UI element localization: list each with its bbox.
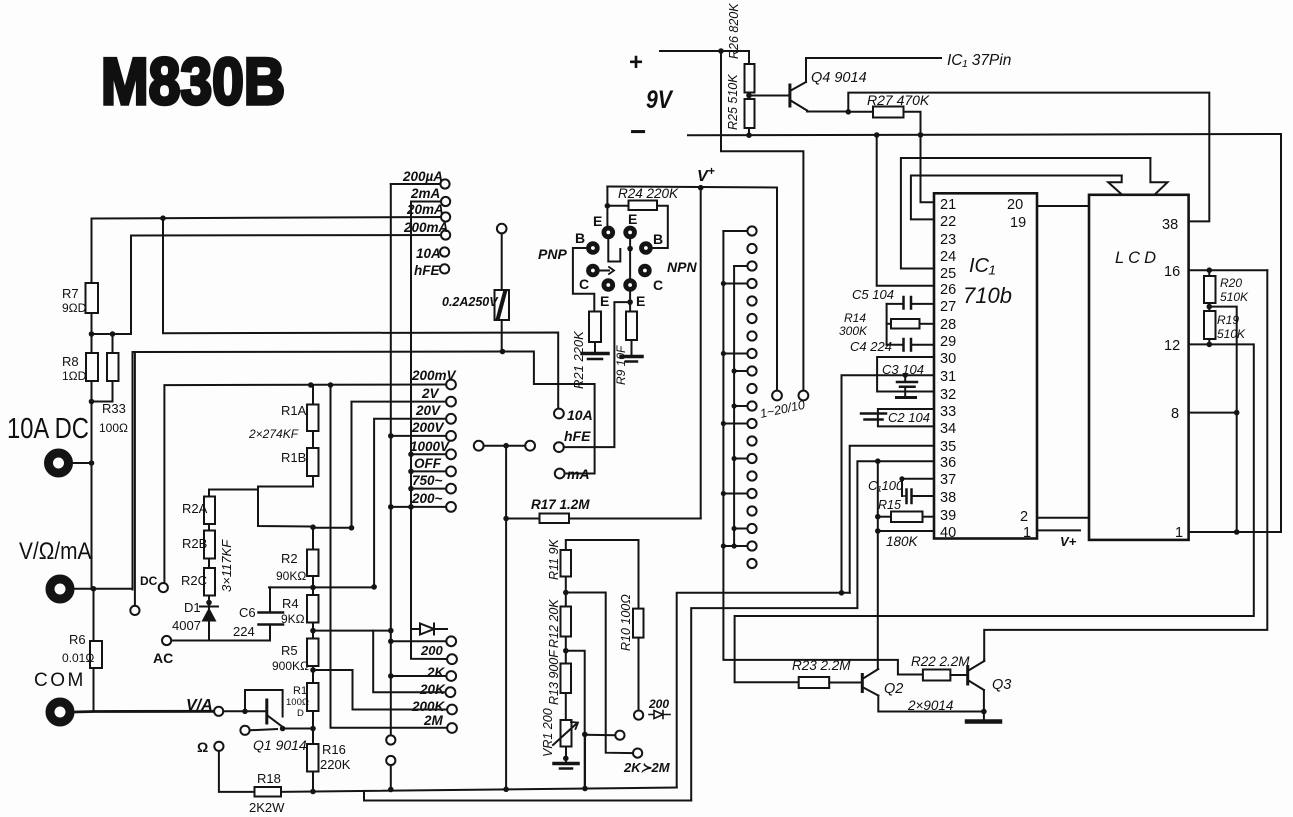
- svg-text:R1B: R1B: [281, 450, 306, 465]
- svg-text:V/Ω/mA: V/Ω/mA: [19, 538, 91, 565]
- wire pin20 to LCD: [1037, 205, 1089, 207]
- contact 1000V: [446, 449, 456, 459]
- svg-text:R6: R6: [69, 632, 86, 647]
- svg-text:10A: 10A: [416, 246, 441, 261]
- svg-text:R23 2.2M: R23 2.2M: [792, 658, 851, 673]
- strip lead r4: [723, 283, 747, 285]
- svg-text:R7: R7: [62, 286, 79, 301]
- IC1 box: [934, 193, 1037, 538]
- svg-text:180K: 180K: [886, 534, 919, 549]
- svg-text:224: 224: [233, 624, 255, 639]
- svg-text:200: 200: [648, 697, 669, 711]
- contact AC: [162, 636, 171, 645]
- resistor R21: [589, 312, 601, 343]
- resistor R13: [561, 664, 572, 694]
- svg-text:R2B: R2B: [182, 536, 207, 551]
- contact select2: [130, 606, 139, 615]
- svg-text:32: 32: [940, 387, 956, 403]
- wire rectifier net: [677, 593, 850, 788]
- svg-text:E: E: [593, 213, 602, 229]
- wire socket right column: [629, 239, 631, 279]
- resistor R8: [91, 334, 93, 353]
- svg-text:33: 33: [940, 404, 956, 420]
- transistor Q4: [788, 85, 791, 106]
- svg-text:PNP: PNP: [538, 246, 567, 262]
- svg-text:2K2W: 2K2W: [249, 800, 285, 815]
- wire R7 top lead: [91, 219, 93, 284]
- contact 20mA: [441, 212, 450, 221]
- svg-text:21: 21: [940, 197, 956, 213]
- wire to mid contact: [566, 651, 585, 789]
- wire 200V tap row: [313, 630, 391, 632]
- wire COM row: [93, 668, 95, 712]
- svg-text:100Ω: 100Ω: [99, 421, 128, 435]
- svg-text:36: 36: [940, 455, 956, 471]
- svg-text:200µA: 200µA: [402, 169, 443, 184]
- svg-text:OFF: OFF: [414, 456, 442, 471]
- svg-text:LCD: LCD: [1115, 249, 1160, 267]
- svg-text:90KΩ: 90KΩ: [276, 569, 306, 583]
- svg-text:hFE: hFE: [414, 263, 440, 278]
- capacitor C3: [877, 357, 933, 392]
- node Q1 emitter: [312, 711, 314, 744]
- svg-text:38: 38: [940, 490, 956, 506]
- svg-text:0.2A250V: 0.2A250V: [442, 295, 499, 309]
- svg-text:200V: 200V: [411, 420, 445, 435]
- svg-text:750~: 750~: [412, 473, 443, 488]
- svg-text:R24 220K: R24 220K: [618, 186, 679, 201]
- wire pin40: [878, 530, 933, 532]
- resistor R25: [748, 93, 750, 100]
- svg-text:4007: 4007: [172, 618, 201, 633]
- svg-text:2K: 2K: [426, 665, 446, 680]
- wire pin25 staircase: [901, 158, 1151, 269]
- svg-text:Q1 9014: Q1 9014: [253, 737, 307, 753]
- resistor R2C: [208, 559, 210, 569]
- resistor R1A: [307, 405, 319, 432]
- svg-text:510K: 510K: [1220, 290, 1249, 304]
- svg-text:1: 1: [1175, 525, 1183, 541]
- wire 200uA lead: [391, 183, 441, 185]
- svg-text:NPN: NPN: [667, 259, 697, 275]
- strip contact column: [747, 226, 756, 568]
- svg-text:C: C: [579, 276, 589, 292]
- svg-text:R2C: R2C: [181, 573, 207, 588]
- contact hFE jack: [554, 442, 564, 452]
- svg-text:D: D: [297, 708, 304, 719]
- svg-text:200: 200: [420, 643, 443, 658]
- svg-text:R17 1.2M: R17 1.2M: [531, 497, 590, 512]
- resistor R11: [561, 550, 572, 577]
- svg-text:C₁100: C₁100: [868, 478, 904, 493]
- contact 2M: [447, 723, 457, 733]
- wire to LCD38 top: [848, 93, 1209, 222]
- svg-text:1000V: 1000V: [410, 439, 450, 454]
- svg-text:R12 20K: R12 20K: [547, 599, 561, 648]
- svg-text:R21 220K: R21 220K: [571, 330, 586, 389]
- svg-text:30: 30: [940, 351, 956, 367]
- wiper contacts: [474, 441, 484, 451]
- wire R7 bottom node: [91, 313, 93, 334]
- svg-text:20: 20: [1007, 197, 1023, 213]
- wire R2A top: [209, 489, 258, 491]
- ground R21: [582, 352, 608, 356]
- wire Vminus rail lower: [877, 461, 879, 669]
- svg-text:C6: C6: [239, 605, 256, 620]
- svg-text:200~: 200~: [411, 491, 443, 506]
- node R12/R13: [565, 637, 567, 664]
- node divider top: [312, 385, 314, 405]
- wire R8/R33 bottom node: [92, 381, 113, 402]
- wire to mid contact riser: [584, 734, 586, 788]
- diode D1: [208, 596, 210, 609]
- svg-text:3×117KF: 3×117KF: [219, 539, 234, 592]
- wire wiper common: [505, 446, 507, 789]
- svg-text:9KΩ: 9KΩ: [281, 612, 305, 626]
- contact 750V~: [446, 484, 456, 494]
- contact V/A: [214, 707, 223, 716]
- socket pin E right bottom: [624, 279, 637, 292]
- svg-text:8: 8: [1171, 406, 1179, 422]
- svg-text:20V: 20V: [415, 403, 441, 418]
- wire Q4 collector to IC37: [806, 58, 941, 82]
- svg-text:100Ω: 100Ω: [286, 697, 309, 708]
- svg-text:22: 22: [940, 214, 956, 230]
- wire 2mA lead: [411, 201, 441, 203]
- resistor R4: [307, 595, 319, 623]
- contact 2K: [446, 671, 456, 681]
- svg-text:2mA: 2mA: [410, 186, 440, 201]
- ground R9: [621, 355, 642, 359]
- svg-text:M830B: M830B: [101, 45, 285, 119]
- wire socket inner jog: [608, 239, 620, 262]
- wire 2V tap row: [313, 527, 352, 529]
- svg-text:900KΩ: 900KΩ: [272, 659, 309, 673]
- contact mA jack: [555, 469, 565, 479]
- contact 10A: [440, 247, 449, 256]
- svg-text:R10 100Ω: R10 100Ω: [619, 594, 633, 651]
- wire battery minus: [688, 134, 1281, 135]
- bus X1: [390, 184, 392, 735]
- svg-text:37: 37: [940, 472, 956, 488]
- svg-text:200K: 200K: [411, 699, 446, 714]
- wire pin2 to LCD: [1037, 517, 1089, 519]
- contact Q1 base: [240, 726, 249, 735]
- svg-text:40: 40: [940, 525, 956, 541]
- contact pair R16: [386, 735, 395, 744]
- node R5/R1: [312, 666, 314, 683]
- contact diode-test: [446, 636, 456, 646]
- svg-text:10A: 10A: [567, 407, 593, 423]
- svg-text:R19: R19: [1217, 313, 1239, 327]
- strip lead r9: [734, 370, 747, 372]
- svg-text:B: B: [653, 231, 663, 247]
- contact OFF: [446, 467, 456, 477]
- strip bus B: [733, 266, 735, 546]
- svg-text:R8: R8: [62, 354, 79, 369]
- svg-text:25: 25: [940, 266, 956, 282]
- socket pin E left bottom: [602, 279, 615, 292]
- contact 200ohm: [447, 654, 457, 664]
- display arrow: [1108, 176, 1122, 195]
- svg-text:R5: R5: [281, 643, 298, 658]
- fuse F1: [497, 224, 507, 234]
- svg-text:R14: R14: [844, 311, 866, 325]
- svg-text:V/A: V/A: [186, 697, 213, 714]
- wire 20mA row: [92, 217, 446, 219]
- resistor R9: [626, 312, 637, 341]
- wire V/A to Q1: [223, 710, 266, 712]
- svg-text:D1: D1: [184, 600, 201, 615]
- diode symbol test: [411, 628, 447, 630]
- svg-text:R1: R1: [293, 685, 307, 697]
- contact 2V: [446, 397, 456, 407]
- svg-text:R2: R2: [281, 551, 298, 566]
- bus X2: [411, 202, 447, 660]
- ground Q3: [983, 712, 985, 721]
- svg-text:19: 19: [1010, 215, 1026, 231]
- contact DC: [159, 583, 168, 592]
- svg-text:E: E: [636, 293, 645, 309]
- node R2/R4: [312, 576, 314, 595]
- svg-text:C5 104: C5 104: [852, 287, 894, 302]
- wire 20V tap row: [269, 586, 374, 588]
- svg-text:1ΩD: 1ΩD: [62, 369, 87, 383]
- resistor R6: [90, 641, 102, 668]
- contact 2K2M: [633, 749, 642, 758]
- strip lead r12: [723, 423, 747, 425]
- potentiometer VR1: [561, 720, 572, 747]
- wire R25/R26 node to Q4: [749, 95, 790, 97]
- wire LCD pin16: [1189, 269, 1268, 271]
- svg-text:R1A: R1A: [281, 403, 307, 418]
- svg-text:DC: DC: [140, 574, 158, 588]
- svg-text:R22 2.2M: R22 2.2M: [911, 654, 970, 669]
- capacitor C2: [878, 409, 933, 426]
- resistor R1: [307, 683, 319, 711]
- wire socket B left: [573, 248, 594, 312]
- svg-text:R18: R18: [257, 771, 281, 786]
- resistor R16: [307, 744, 319, 772]
- wire Q4 emitter: [807, 111, 848, 112]
- wire V+ left drop: [700, 188, 702, 519]
- node R4/R5: [312, 623, 314, 639]
- socket pin E right top: [624, 226, 637, 239]
- svg-text:R15: R15: [878, 498, 901, 512]
- svg-text:29: 29: [940, 334, 956, 350]
- wire left rail down: [92, 463, 94, 642]
- wire R20/R19 mid rail: [1209, 307, 1236, 532]
- wire Q2 emitter: [878, 696, 984, 712]
- svg-text:R33: R33: [102, 401, 126, 416]
- contact 2mA: [441, 197, 450, 206]
- bus1 bottom: [281, 788, 677, 792]
- wire ohm to R18: [219, 751, 255, 792]
- svg-text:20K: 20K: [419, 682, 446, 697]
- wire LCD pin12 rail: [735, 344, 1254, 682]
- svg-text:R2A: R2A: [182, 501, 208, 516]
- transistor Q1: [245, 690, 283, 717]
- contact 200uA: [440, 179, 449, 188]
- svg-text:R26 820K: R26 820K: [727, 3, 741, 59]
- node 10A tap: [160, 215, 166, 221]
- svg-text:28: 28: [940, 317, 956, 333]
- contact 200K: [447, 705, 457, 715]
- svg-text:+: +: [708, 164, 715, 178]
- resistor R26: [748, 51, 750, 64]
- svg-text:COM: COM: [34, 670, 86, 691]
- socket pin B right: [640, 242, 653, 255]
- svg-text:38: 38: [1162, 217, 1178, 233]
- contact 10A jack: [554, 409, 564, 419]
- svg-text:E: E: [600, 293, 609, 309]
- svg-text:16: 16: [1164, 264, 1180, 280]
- svg-text:AC: AC: [153, 650, 173, 666]
- svg-text:C2 104: C2 104: [888, 410, 930, 425]
- socket pin C left: [587, 264, 600, 277]
- svg-text:34: 34: [940, 421, 956, 437]
- wire LCD pin8: [1189, 412, 1237, 414]
- wire pin35 staircase: [850, 446, 933, 593]
- svg-text:0.01Ω: 0.01Ω: [62, 651, 94, 665]
- wire socket C row: [599, 270, 609, 272]
- wire 200mA row: [131, 235, 446, 334]
- svg-text:31: 31: [940, 369, 956, 385]
- wire pin21 feed done above; pin22 staircase: [911, 176, 1122, 220]
- transistor Q2: [861, 675, 864, 692]
- strip lead r20: [723, 545, 747, 547]
- svg-text:R9 10F: R9 10F: [614, 345, 628, 385]
- svg-text:IC₁ 37Pin: IC₁ 37Pin: [947, 52, 1011, 69]
- resistor R7: [86, 283, 99, 313]
- resistor R20: [1204, 276, 1216, 303]
- svg-text:R13 900F: R13 900F: [547, 649, 561, 705]
- strip lead r8: [723, 353, 747, 355]
- socket pin E left top: [602, 226, 615, 239]
- wire pin36 staircase: [691, 461, 933, 800]
- svg-text:300K: 300K: [839, 324, 868, 338]
- strip lead r11: [734, 405, 747, 407]
- wire AC row: [208, 622, 210, 641]
- contact hFE: [440, 264, 449, 273]
- diode symbol 200: [649, 714, 670, 716]
- resistor R19: [1204, 311, 1216, 339]
- socket pin C right: [639, 264, 652, 277]
- svg-text:2K≻2M: 2K≻2M: [623, 760, 671, 775]
- wire 200mV row: [164, 385, 446, 584]
- svg-text:2×274KF: 2×274KF: [248, 427, 299, 441]
- wire 10A path: [163, 218, 558, 409]
- contact 200mA: [441, 230, 450, 239]
- svg-text:IC₁: IC₁: [969, 255, 995, 277]
- resistor R33: [112, 334, 114, 353]
- svg-text:B: B: [575, 230, 585, 246]
- svg-text:Ω: Ω: [197, 739, 208, 755]
- wire LCD pin1 row: [1189, 134, 1281, 532]
- contact 200V: [446, 431, 456, 441]
- svg-text:510K: 510K: [1217, 327, 1246, 341]
- contact 20V: [446, 414, 456, 424]
- wire battery plus: [660, 50, 749, 52]
- strip lead r18: [734, 528, 747, 530]
- socket pin B left: [587, 242, 600, 255]
- svg-text:+: +: [629, 49, 643, 76]
- svg-text:R25 510K: R25 510K: [726, 74, 740, 130]
- resistor R12: [561, 607, 572, 637]
- svg-text:−: −: [630, 116, 646, 147]
- contact mid ohm: [615, 731, 624, 740]
- wire LCD pin16 rail to Q3: [984, 270, 1267, 659]
- bus2 bottom: [364, 791, 691, 800]
- contact 20K: [446, 687, 456, 697]
- resistor R10: [633, 609, 644, 638]
- wire C-cluster left rail: [886, 304, 888, 345]
- wire pin31: [842, 375, 933, 593]
- svg-text:2: 2: [1020, 509, 1028, 525]
- resistor R18: [255, 787, 282, 797]
- svg-text:R4: R4: [282, 596, 299, 611]
- wire R11 top to R10: [566, 540, 639, 609]
- capacitor C6: [269, 587, 271, 612]
- strip lead r16: [723, 493, 747, 495]
- svg-text:9V: 9V: [646, 85, 674, 113]
- svg-text:R16: R16: [322, 742, 346, 757]
- svg-text:Q2: Q2: [884, 681, 903, 697]
- svg-text:23: 23: [940, 232, 956, 248]
- wire fuse feed: [133, 352, 595, 590]
- svg-text:24: 24: [940, 249, 956, 265]
- wire pin1 V+: [1037, 529, 1080, 531]
- svg-text:9ΩD: 9ΩD: [62, 301, 87, 315]
- svg-text:R11 9K: R11 9K: [547, 539, 561, 580]
- resistor R2B: [208, 524, 210, 531]
- strip lead r3: [734, 265, 747, 267]
- contact battery sw right: [799, 391, 809, 401]
- wire 200K tap row: [313, 669, 353, 671]
- transistor Q3: [966, 667, 969, 685]
- wire pin26 Vminus: [877, 135, 933, 286]
- svg-text:2M: 2M: [423, 713, 444, 728]
- svg-text:V+: V+: [1060, 534, 1077, 549]
- resistor R2A: [204, 497, 215, 525]
- svg-text:220K: 220K: [320, 757, 351, 772]
- svg-text:710b: 710b: [963, 283, 1012, 308]
- svg-text:VR1 200: VR1 200: [541, 708, 555, 757]
- svg-text:26: 26: [940, 282, 956, 298]
- strip lead r1: [723, 230, 747, 232]
- LCD box: [1089, 195, 1189, 540]
- svg-text:Q4 9014: Q4 9014: [811, 70, 867, 86]
- svg-text:200mV: 200mV: [411, 368, 457, 383]
- svg-text:Q3: Q3: [992, 677, 1011, 693]
- svg-text:27: 27: [940, 299, 956, 315]
- wire R1B to R2 node: [258, 476, 313, 527]
- resistor R2: [312, 527, 314, 549]
- svg-text:R20: R20: [1220, 276, 1242, 290]
- svg-text:200mA: 200mA: [403, 220, 448, 235]
- strip lead r14: [734, 458, 747, 460]
- svg-text:2V: 2V: [421, 386, 440, 401]
- svg-text:35: 35: [940, 439, 956, 455]
- svg-text:hFE: hFE: [564, 428, 591, 444]
- ground VR1: [554, 762, 578, 766]
- svg-text:C: C: [653, 277, 663, 293]
- svg-text:10A DC: 10A DC: [7, 412, 89, 445]
- node R11/R12: [565, 577, 567, 607]
- resistor R5: [307, 639, 319, 667]
- contact 200 jack: [634, 711, 643, 720]
- wire to 2K2M contact: [566, 593, 633, 754]
